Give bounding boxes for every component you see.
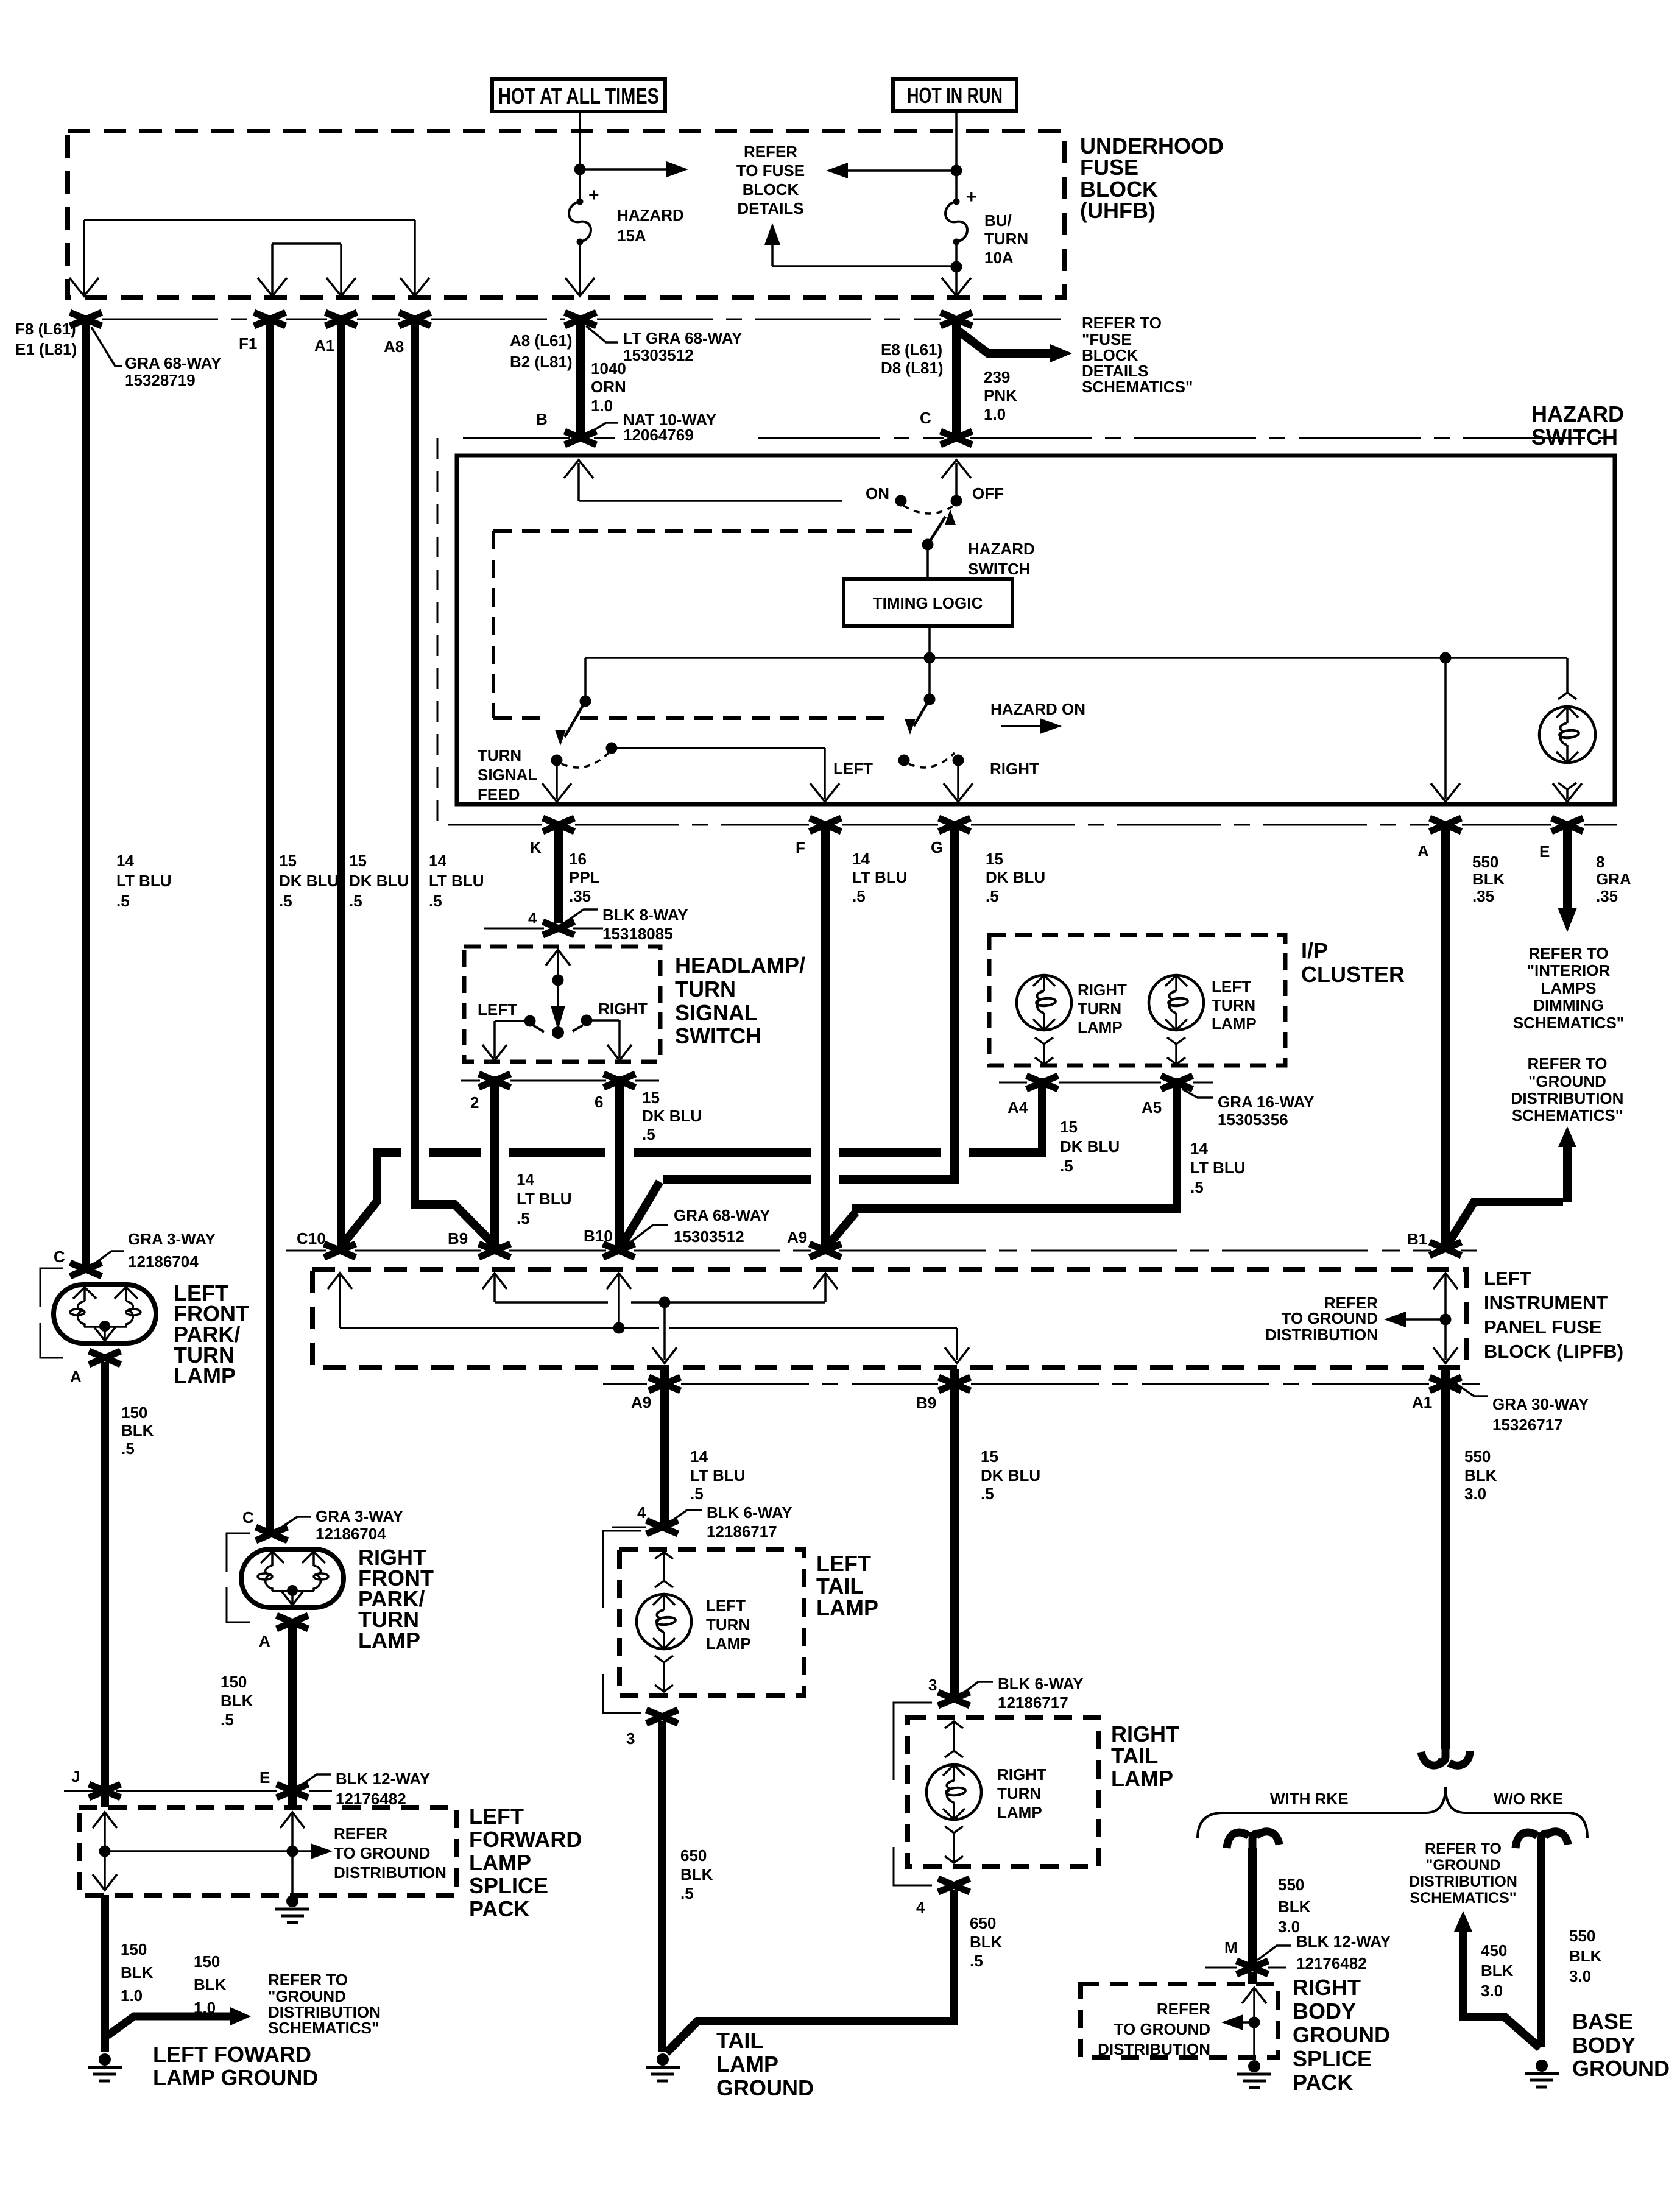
thick branch arrow REFER TO FUSE BLOCK DETAILS SCHEMATICS — [958, 330, 1054, 353]
wire 239 PNK to hazard switch C — [952, 323, 961, 436]
connector pin G — [939, 818, 970, 831]
svg-text:BLK: BLK — [121, 1421, 154, 1439]
svg-text:(UHFB): (UHFB) — [1080, 198, 1156, 223]
svg-text:3.0: 3.0 — [1464, 1485, 1486, 1503]
brace WITH RKE / W-O RKE — [1198, 1787, 1587, 1838]
connector pin C (right front lamp) — [256, 1527, 288, 1541]
svg-text:LAMP: LAMP — [1078, 1018, 1123, 1036]
svg-text:BLK: BLK — [1278, 1898, 1311, 1916]
splice bus line — [105, 1850, 292, 1852]
svg-text:15326717: 15326717 — [1492, 1416, 1563, 1434]
branch line to up-arrow inside fuse block — [772, 265, 956, 267]
svg-text:+: + — [966, 187, 977, 207]
wire B9 to right tail lamp — [950, 1369, 959, 1695]
svg-text:I/P: I/P — [1301, 938, 1328, 963]
svg-text:.5: .5 — [517, 1209, 530, 1227]
connector pin A9 (top) — [810, 1244, 841, 1257]
wire E thick arrow 8 GRA down — [1563, 821, 1572, 913]
svg-text:A1: A1 — [1412, 1393, 1432, 1411]
svg-text:15303512: 15303512 — [623, 346, 694, 364]
svg-text:15305356: 15305356 — [1218, 1110, 1288, 1129]
LIPFB line2 end arrow down to B9 out — [956, 1328, 958, 1360]
svg-text:W/O RKE: W/O RKE — [1494, 1790, 1563, 1808]
left lever arrow — [565, 701, 585, 737]
wire A5 down to bus — [1173, 1078, 1181, 1209]
svg-text:.5: .5 — [116, 892, 130, 910]
svg-text:.5: .5 — [690, 1485, 704, 1503]
svg-text:.5: .5 — [221, 1710, 234, 1729]
connector pin 6 — [604, 1074, 635, 1087]
wire G to LIPFB B10 bus — [950, 821, 959, 1184]
svg-text:LEFT: LEFT — [478, 1000, 517, 1019]
wire F8 to left front lamp — [82, 315, 90, 1268]
svg-text:A4: A4 — [1008, 1098, 1028, 1117]
wire 550 BLK with Rke hook — [1227, 1832, 1249, 1848]
left turn lamp bulb — [637, 1594, 691, 1649]
svg-text:REFER TO: REFER TO — [268, 1971, 348, 1989]
svg-text:DK BLU: DK BLU — [981, 1466, 1040, 1485]
svg-text:RIGHT: RIGHT — [990, 760, 1039, 778]
svg-text:15328719: 15328719 — [125, 371, 196, 389]
splice M junction dot — [1249, 2017, 1260, 2028]
svg-text:HOT AT ALL TIMES: HOT AT ALL TIMES — [498, 83, 659, 108]
connector row BLK 8-WAY — [484, 928, 603, 930]
right lever arrow — [914, 699, 930, 726]
wire F1 to right front lamp — [266, 315, 274, 1533]
connector bracket (right front lamp) — [227, 1533, 250, 1622]
connector row under fuse block — [102, 319, 1061, 320]
svg-text:LEFT FOWARD: LEFT FOWARD — [153, 2042, 311, 2067]
common contact dot — [552, 1026, 564, 1039]
right turn indicator lamp — [1017, 975, 1071, 1030]
svg-text:GRA: GRA — [1596, 870, 1631, 888]
svg-text:PNK: PNK — [984, 386, 1017, 404]
internal feed line to F1/A1 outputs — [272, 242, 341, 245]
label BLK 8-WAY 15318085 with leader — [563, 909, 598, 923]
svg-text:15: 15 — [981, 1447, 998, 1466]
feed arrow pointing left toward refer text — [847, 169, 956, 172]
svg-text:"INTERIOR: "INTERIOR — [1527, 961, 1611, 980]
label BLK 12-WAY 12176482 (M) with leader — [1257, 1946, 1291, 1960]
connector pin E — [1551, 818, 1583, 831]
timing logic output stem — [928, 626, 931, 658]
svg-text:INSTRUMENT: INSTRUMENT — [1484, 1292, 1608, 1313]
connector pin 3 (right tail lamp) — [938, 1692, 970, 1706]
contact dot RIGHT (pin 6) — [581, 1015, 593, 1026]
power label box HOT IN RUN — [893, 79, 1017, 111]
connector row J/E — [64, 1790, 332, 1792]
svg-text:HAZARD ON: HAZARD ON — [990, 700, 1085, 718]
label GRA 3-WAY 12186704 with leader — [91, 1251, 124, 1266]
LIPFB B1 stem with dot — [1433, 1273, 1458, 1289]
svg-text:150: 150 — [121, 1403, 147, 1422]
junction node on BU/TURN feed — [951, 165, 962, 177]
svg-text:LEFT: LEFT — [1212, 978, 1251, 996]
svg-text:PACK: PACK — [469, 1896, 529, 1921]
svg-text:A1: A1 — [314, 336, 334, 355]
svg-text:LAMP: LAMP — [174, 1363, 236, 1388]
svg-text:16: 16 — [569, 850, 587, 868]
bus A5-A9 14 LT BLU — [827, 1212, 856, 1246]
svg-text:TURN: TURN — [675, 976, 736, 1001]
wire below hazard fuse to connector — [579, 242, 581, 295]
hazard pilot lamp — [1539, 707, 1595, 763]
right front park/turn lamp — [241, 1549, 344, 1608]
svg-text:LAMP: LAMP — [1111, 1766, 1173, 1791]
svg-text:B10: B10 — [584, 1227, 613, 1245]
base body ground symbol — [1536, 2060, 1548, 2072]
svg-text:K: K — [530, 838, 542, 856]
svg-text:LAMP: LAMP — [706, 1634, 751, 1653]
svg-text:TO FUSE: TO FUSE — [736, 161, 805, 180]
turn signal feed contact dot — [551, 755, 563, 766]
right body ground splice pack dashed box — [1081, 1984, 1278, 2057]
LEFT output line — [612, 748, 825, 799]
right tail lamp dashed box — [908, 1718, 1099, 1866]
svg-text:550: 550 — [1464, 1447, 1491, 1466]
left forward lamp splice pack dashed box — [79, 1807, 457, 1895]
svg-text:12186704: 12186704 — [316, 1525, 386, 1543]
junction dot timing output — [924, 652, 936, 664]
svg-text:DISTRIBUTION: DISTRIBUTION — [1098, 2040, 1210, 2058]
svg-text:1.0: 1.0 — [194, 1999, 216, 2017]
connector pin A (right front lamp) — [277, 1615, 308, 1629]
svg-text:B2 (L81): B2 (L81) — [510, 353, 573, 371]
svg-text:SCHEMATICS": SCHEMATICS" — [1082, 378, 1193, 396]
svg-text:TURN: TURN — [1078, 1000, 1121, 1018]
connector pin C10 — [324, 1244, 356, 1257]
dashed arc common-RIGHT — [909, 753, 955, 768]
label NAT 10-WAY 12064769 with leader — [586, 423, 618, 435]
svg-text:14: 14 — [690, 1447, 708, 1466]
svg-text:8: 8 — [1596, 853, 1604, 871]
dashed arc TSF-LEFT — [562, 753, 609, 768]
svg-text:BLK: BLK — [1481, 1961, 1514, 1980]
svg-text:A: A — [70, 1368, 82, 1386]
svg-text:3: 3 — [626, 1729, 635, 1748]
wire from HOT IN RUN into fuse block — [955, 111, 958, 202]
LIPFB internal line1 — [495, 1301, 825, 1304]
svg-text:GRA 30-WAY: GRA 30-WAY — [1492, 1395, 1589, 1413]
svg-text:.5: .5 — [642, 1125, 655, 1143]
contact dot OFF — [951, 495, 962, 507]
wire 2 to LIPFB B9 — [490, 1076, 499, 1248]
svg-text:LT GRA 68-WAY: LT GRA 68-WAY — [623, 329, 743, 347]
svg-text:A8: A8 — [384, 337, 404, 356]
svg-text:LAMP: LAMP — [358, 1628, 420, 1653]
junction node below BU/TURN fuse — [951, 261, 962, 273]
wire 150 BLK .5 to E — [288, 1626, 297, 1787]
hazard contact dot (common) — [898, 755, 910, 766]
svg-text:BLK: BLK — [1569, 1947, 1602, 1965]
svg-text:RIGHT: RIGHT — [1078, 981, 1127, 999]
junction node on hazard feed — [574, 164, 586, 175]
bus C10-A4 15 DK BLU (upper) — [373, 1148, 401, 1157]
bus C10 elbow and diagonal — [341, 1149, 377, 1246]
svg-text:C: C — [54, 1248, 65, 1266]
connector pin F — [810, 818, 841, 831]
svg-text:A8 (L61): A8 (L61) — [510, 331, 573, 350]
wire A9 to left tail lamp — [660, 1369, 669, 1523]
svg-text:LAMP: LAMP — [469, 1850, 531, 1875]
svg-text:LEFT: LEFT — [1484, 1268, 1531, 1289]
svg-text:A: A — [259, 1632, 270, 1650]
svg-text:4: 4 — [916, 1898, 925, 1916]
svg-text:.5: .5 — [1060, 1157, 1073, 1175]
svg-text:BLK 12-WAY: BLK 12-WAY — [336, 1770, 430, 1788]
RIGHT output to pin 6 — [587, 1020, 619, 1058]
connector row below switch — [461, 1080, 659, 1082]
svg-text:LT BLU: LT BLU — [517, 1190, 572, 1208]
svg-text:GROUND: GROUND — [716, 2075, 814, 2100]
svg-text:DK BLU: DK BLU — [986, 868, 1045, 886]
svg-text:REFER: REFER — [744, 143, 797, 161]
left turn indicator lamp — [1149, 975, 1204, 1030]
svg-text:15: 15 — [986, 850, 1003, 868]
svg-text:SPLICE: SPLICE — [1293, 2046, 1372, 2071]
svg-text:3.0: 3.0 — [1569, 1967, 1591, 1985]
connector row GRA 16-WAY — [999, 1082, 1213, 1084]
svg-text:TURN: TURN — [997, 1784, 1041, 1802]
B1 branch bus — [1447, 1202, 1563, 1245]
wire F to LIPFB A9 — [821, 821, 830, 1248]
connector pin A8 — [399, 312, 431, 326]
connector pin A (left front lamp) — [89, 1351, 121, 1364]
connector pin A — [1430, 818, 1461, 831]
svg-text:SCHEMATICS": SCHEMATICS" — [1513, 1014, 1624, 1032]
svg-text:239: 239 — [984, 368, 1010, 386]
svg-text:B9: B9 — [916, 1394, 936, 1412]
wire 150 BLK 1.0 to left forward lamp ground — [101, 1895, 109, 2052]
connector pin 4 (BLK 8-WAY) — [543, 922, 574, 935]
connector pin A8(L61)/B2(L81) — [565, 312, 596, 326]
svg-text:SIGNAL: SIGNAL — [478, 766, 537, 784]
TIMING LOGIC box — [844, 579, 1012, 626]
svg-text:E8 (L61): E8 (L61) — [881, 341, 942, 359]
pilot lamp branch to indicator — [1566, 658, 1569, 693]
svg-text:SWITCH: SWITCH — [1531, 425, 1618, 450]
svg-text:GRA 68-WAY: GRA 68-WAY — [125, 354, 221, 372]
svg-text:D8 (L81): D8 (L81) — [881, 359, 944, 377]
svg-text:SWITCH: SWITCH — [675, 1023, 761, 1048]
svg-text:TAIL: TAIL — [816, 1573, 863, 1598]
splice pack ground symbol — [286, 1895, 298, 1907]
pivot dot left lever — [580, 696, 591, 707]
svg-text:GROUND: GROUND — [1572, 2056, 1670, 2081]
svg-text:FUSE: FUSE — [1080, 155, 1138, 180]
connector pin A5 — [1161, 1076, 1193, 1089]
wire 650 BLK .5 (right) to tail lamp ground — [666, 1890, 958, 2053]
splice refer arrow right — [292, 1850, 317, 1852]
svg-text:REFER TO: REFER TO — [1425, 1840, 1502, 1857]
LEFT output to pin 2 — [495, 1021, 530, 1058]
svg-text:TAIL: TAIL — [716, 2028, 763, 2053]
svg-text:550: 550 — [1569, 1927, 1595, 1945]
svg-text:BLK: BLK — [680, 1865, 713, 1883]
svg-text:SIGNAL: SIGNAL — [675, 1000, 758, 1025]
svg-text:4: 4 — [637, 1503, 646, 1522]
splice refer arrow left — [1232, 2021, 1254, 2024]
left drop to turn-signal-feed lever — [584, 658, 587, 701]
svg-text:.5: .5 — [981, 1485, 994, 1503]
connector pin B NAT 10-WAY — [565, 431, 596, 445]
svg-text:+: + — [588, 185, 599, 205]
wire 150 BLK .5 to J — [101, 1362, 109, 1787]
svg-text:SCHEMATICS": SCHEMATICS" — [1512, 1106, 1623, 1124]
bus G-B10 15 DK BLU — [621, 1182, 660, 1246]
wire 550 BLK w/o RKE hook — [1516, 1832, 1537, 1848]
svg-text:15: 15 — [642, 1089, 660, 1107]
svg-text:HAZARD: HAZARD — [617, 206, 684, 224]
contact dot LEFT (pin 2) — [524, 1015, 536, 1027]
svg-text:LEFT: LEFT — [469, 1804, 524, 1829]
svg-text:B: B — [536, 410, 548, 428]
hazard switch connector row — [463, 437, 1614, 439]
svg-text:.5: .5 — [970, 1952, 983, 1970]
connector pin 3 (left tail lamp bottom) — [646, 1710, 678, 1723]
label GRA 16-WAY 15305356 with leader — [1182, 1089, 1213, 1098]
flasher bus line — [585, 657, 1567, 659]
svg-text:.35: .35 — [1472, 887, 1494, 905]
contact dot RIGHT — [953, 755, 964, 766]
svg-text:DK BLU: DK BLU — [349, 872, 409, 890]
svg-text:LAMP: LAMP — [1212, 1014, 1257, 1033]
svg-text:HAZARD: HAZARD — [1531, 401, 1624, 426]
connector pin 4 (right tail lamp bottom) — [938, 1879, 970, 1892]
svg-text:DK BLU: DK BLU — [642, 1107, 702, 1125]
svg-text:BODY: BODY — [1293, 1999, 1356, 2024]
connector pin C (left front lamp) — [70, 1263, 102, 1276]
svg-text:10A: 10A — [984, 249, 1014, 267]
svg-text:REFER: REFER — [1157, 2000, 1210, 2018]
splice J stem double arrow — [93, 1812, 117, 1828]
svg-text:DK BLU: DK BLU — [279, 872, 339, 890]
tail lamp ground symbol — [657, 2053, 669, 2066]
LIPFB B9 stem — [482, 1273, 507, 1289]
connector pin 4 (left tail lamp) — [646, 1520, 678, 1534]
wire K purple to headlamp switch — [554, 821, 563, 923]
svg-text:BLK 12-WAY: BLK 12-WAY — [1296, 1932, 1391, 1951]
svg-text:.5: .5 — [680, 1884, 694, 1902]
svg-text:RIGHT: RIGHT — [1111, 1721, 1179, 1746]
hazard switch output connector row — [448, 824, 1617, 826]
svg-text:TURN: TURN — [706, 1615, 750, 1634]
LIPFB C10 stem — [328, 1273, 352, 1289]
LIPFB bottom connector row — [603, 1383, 1480, 1385]
svg-text:TURN: TURN — [984, 230, 1028, 248]
svg-text:TO GROUND: TO GROUND — [1282, 1309, 1378, 1327]
svg-text:150: 150 — [221, 1673, 247, 1691]
switch feed up-arrow from B input — [577, 463, 580, 501]
svg-text:LEFT: LEFT — [833, 760, 873, 778]
svg-text:BLOCK (LIPFB): BLOCK (LIPFB) — [1484, 1341, 1623, 1362]
wire 650 BLK .5 to tail lamp ground — [658, 1721, 666, 2052]
svg-text:LT BLU: LT BLU — [1190, 1159, 1246, 1177]
right lever stem and pivot dot — [928, 658, 931, 699]
wire 450 BLK thick up arrow — [1459, 1928, 1540, 2048]
svg-text:LEFT: LEFT — [816, 1551, 871, 1576]
svg-text:14: 14 — [116, 852, 134, 870]
wire 1040 ORN hazard feed — [576, 315, 585, 436]
svg-text:14: 14 — [1190, 1139, 1208, 1157]
I/P cluster dashed box — [989, 935, 1285, 1065]
svg-text:LAMPS: LAMPS — [1541, 979, 1597, 997]
svg-text:F1: F1 — [239, 334, 257, 353]
svg-text:DISTRIBUTION: DISTRIBUTION — [1511, 1089, 1624, 1107]
svg-text:2: 2 — [470, 1093, 479, 1112]
svg-text:C10: C10 — [297, 1229, 326, 1248]
svg-text:RIGHT: RIGHT — [598, 1000, 648, 1018]
power label box HOT AT ALL TIMES — [492, 79, 665, 111]
svg-text:450: 450 — [1481, 1941, 1507, 1960]
svg-text:BLK 6-WAY: BLK 6-WAY — [707, 1503, 792, 1522]
svg-text:3.0: 3.0 — [1481, 1982, 1503, 2000]
connector pin B9 (top) — [479, 1244, 510, 1257]
svg-text:RIGHT: RIGHT — [997, 1765, 1046, 1784]
wire from HOT AT ALL TIMES into fuse block — [579, 111, 581, 201]
connector pin E (BLK 12-WAY) — [277, 1784, 308, 1798]
svg-text:.5: .5 — [349, 892, 362, 910]
connector pin C — [941, 431, 972, 445]
svg-text:650: 650 — [680, 1846, 707, 1865]
svg-text:C: C — [920, 409, 931, 427]
svg-text:A9: A9 — [787, 1228, 807, 1246]
svg-text:650: 650 — [970, 1914, 996, 1932]
svg-text:E: E — [1539, 842, 1550, 861]
svg-text:1.0: 1.0 — [121, 1986, 143, 2005]
connector pin J — [89, 1784, 121, 1798]
svg-text:12186717: 12186717 — [998, 1693, 1068, 1712]
svg-text:B9: B9 — [448, 1229, 468, 1248]
wire 6 to LIPFB B10 — [615, 1076, 624, 1248]
svg-text:BU/: BU/ — [984, 211, 1012, 230]
left instrument panel fuse block dashed box — [312, 1269, 1466, 1368]
svg-text:PACK: PACK — [1293, 2070, 1353, 2095]
label GRA 68-WAY 15303512 with leader — [625, 1225, 668, 1246]
connector pin 2 — [479, 1074, 510, 1087]
svg-text:HOT IN RUN: HOT IN RUN — [907, 83, 1003, 108]
splice E stem to ground — [280, 1812, 305, 1828]
label GRA 30-WAY 15326717 with leader — [1451, 1380, 1488, 1396]
label GRA 68-WAY 15328719 with leader — [91, 327, 122, 366]
stem junction dot — [552, 975, 564, 986]
svg-text:GRA 68-WAY: GRA 68-WAY — [674, 1206, 770, 1224]
connector pin K — [543, 818, 574, 831]
svg-text:LT BLU: LT BLU — [116, 872, 172, 890]
svg-text:F8 (L61): F8 (L61) — [15, 320, 76, 338]
svg-text:BLK: BLK — [1464, 1466, 1497, 1485]
svg-text:550: 550 — [1472, 853, 1498, 871]
thick ground-distribution up arrow from B1 branch — [1563, 1144, 1572, 1202]
svg-text:15303512: 15303512 — [674, 1227, 744, 1246]
lever arrow down — [557, 980, 559, 1006]
svg-text:REFER TO: REFER TO — [1528, 1054, 1608, 1073]
svg-text:E1 (L81): E1 (L81) — [15, 340, 77, 358]
svg-text:WITH RKE: WITH RKE — [1270, 1790, 1349, 1808]
svg-text:BODY: BODY — [1572, 2033, 1636, 2058]
svg-text:DIMMING: DIMMING — [1533, 996, 1604, 1014]
svg-text:SCHEMATICS": SCHEMATICS" — [1410, 1890, 1516, 1907]
svg-text:E: E — [259, 1768, 270, 1787]
svg-text:REFER TO: REFER TO — [1082, 314, 1162, 332]
headlamp/turn signal switch dashed box — [464, 947, 660, 1062]
LIPFB refer-to-ground arrow — [1405, 1318, 1445, 1321]
svg-text:LT BLU: LT BLU — [690, 1466, 746, 1485]
svg-text:15: 15 — [349, 852, 367, 870]
svg-text:1.0: 1.0 — [984, 405, 1006, 423]
svg-text:SWITCH: SWITCH — [968, 560, 1031, 578]
svg-text:TO GROUND: TO GROUND — [334, 1844, 430, 1862]
